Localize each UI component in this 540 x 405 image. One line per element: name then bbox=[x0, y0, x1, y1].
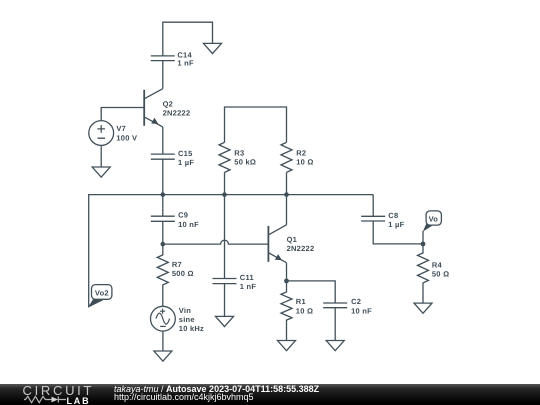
capacitor C2 bbox=[323, 303, 347, 308]
ground top-right bbox=[204, 43, 222, 53]
svg-text:R1: R1 bbox=[296, 297, 306, 306]
wire Q1 collector to bus bbox=[286, 195, 288, 225]
svg-text:10 nF: 10 nF bbox=[351, 306, 372, 315]
svg-text:10 Ω: 10 Ω bbox=[296, 158, 313, 167]
capacitor C11 bbox=[213, 279, 237, 284]
wire R3 to bus bbox=[224, 172, 226, 194]
logo CIRCUIT bbox=[23, 386, 95, 396]
ground below R1 bbox=[278, 341, 296, 351]
svg-text:Q1: Q1 bbox=[287, 235, 298, 244]
svg-text:2N2222: 2N2222 bbox=[163, 109, 191, 118]
node dot emitter bbox=[284, 279, 289, 284]
flag Vo bbox=[423, 211, 442, 232]
resistor R4 bbox=[418, 244, 429, 303]
svg-text:500 Ω: 500 Ω bbox=[172, 269, 194, 278]
resistor R1 bbox=[281, 281, 292, 341]
svg-text:R7: R7 bbox=[172, 260, 182, 269]
node dot C9-R7 bbox=[161, 242, 166, 247]
svg-text:Vin: Vin bbox=[179, 306, 191, 315]
node dot bus-R3 bbox=[222, 192, 227, 197]
wire node to Q1 base with hop bbox=[163, 240, 269, 244]
wire top from C14 to ground bbox=[163, 22, 213, 56]
wire C11 to ground bbox=[224, 284, 226, 317]
ground below R4 bbox=[414, 303, 432, 313]
logo LAB bbox=[67, 397, 91, 405]
wire C15 to bus bbox=[162, 159, 164, 194]
wire C8 to R4 node bbox=[373, 221, 423, 244]
wire C2 to ground bbox=[334, 308, 336, 341]
wire Q2 emitter to C15 bbox=[162, 127, 164, 154]
wire bus to C9 bbox=[162, 195, 164, 217]
wire main bus bbox=[89, 195, 374, 308]
svg-text:1 µF: 1 µF bbox=[178, 158, 194, 167]
capacitor C9 bbox=[151, 216, 175, 221]
svg-text:C15: C15 bbox=[178, 149, 193, 158]
ground below C11 bbox=[216, 316, 234, 326]
svg-text:1 nF: 1 nF bbox=[177, 59, 194, 68]
transistor Q2 bbox=[144, 89, 163, 127]
capacitor C15 bbox=[151, 154, 175, 159]
node dot bus-R2 bbox=[284, 192, 289, 197]
node dot bus-C15 bbox=[161, 192, 166, 197]
resistor R3 bbox=[219, 142, 230, 172]
node dot R4 bbox=[421, 242, 426, 247]
svg-text:R4: R4 bbox=[432, 260, 443, 269]
svg-text:R2: R2 bbox=[296, 149, 306, 158]
bottom black bar bbox=[0, 384, 540, 405]
logo squiggle bbox=[23, 395, 73, 405]
ground below V7 bbox=[92, 167, 110, 177]
svg-text:Vo: Vo bbox=[429, 215, 439, 224]
wire Vin to ground bbox=[162, 331, 164, 351]
ground below C2 bbox=[326, 341, 344, 351]
wire node to Vo flag bbox=[422, 231, 424, 244]
transistor Q1 bbox=[268, 225, 286, 263]
svg-text:1 nF: 1 nF bbox=[240, 282, 257, 291]
svg-text:C9: C9 bbox=[178, 211, 188, 220]
svg-text:Vo2: Vo2 bbox=[95, 288, 109, 297]
svg-text:10 Ω: 10 Ω bbox=[296, 307, 313, 316]
svg-text:1 µF: 1 µF bbox=[388, 220, 404, 229]
wire Q1 emitter to node bbox=[286, 263, 288, 281]
svg-text:10 kHz: 10 kHz bbox=[179, 324, 204, 333]
ground below Vin bbox=[154, 351, 172, 361]
svg-text:Q2: Q2 bbox=[163, 99, 174, 108]
svg-text:sine: sine bbox=[179, 315, 195, 324]
svg-text:50 Ω: 50 Ω bbox=[432, 270, 449, 279]
svg-text:2N2222: 2N2222 bbox=[287, 244, 315, 253]
svg-text:C2: C2 bbox=[351, 297, 361, 306]
svg-text:C11: C11 bbox=[240, 273, 254, 282]
wire R2 to bus bbox=[286, 172, 288, 194]
svg-text:R3: R3 bbox=[234, 148, 244, 157]
wire node to C2 bbox=[287, 281, 336, 303]
capacitor C14 bbox=[151, 56, 175, 61]
wire V7 to Q2 base bbox=[101, 108, 144, 121]
flag Vo2 bbox=[88, 285, 112, 308]
voltage source V7 bbox=[89, 121, 114, 146]
svg-text:V7: V7 bbox=[116, 124, 126, 133]
wire V7 to ground bbox=[100, 145, 102, 167]
svg-text:100 V: 100 V bbox=[116, 134, 137, 143]
wire C9 to node bbox=[162, 221, 164, 244]
wire C14 to Q2 collector bbox=[162, 61, 164, 89]
wire top rail R3 R2 bbox=[225, 107, 287, 142]
bar text line 2 bbox=[114, 393, 254, 403]
voltage source Vin bbox=[151, 306, 176, 331]
svg-text:C8: C8 bbox=[388, 211, 398, 220]
capacitor C8 bbox=[361, 216, 385, 221]
wire R3 column down to C11 bbox=[224, 195, 226, 279]
resistor R7 bbox=[157, 244, 168, 306]
svg-text:10 nF: 10 nF bbox=[178, 220, 199, 229]
resistor R2 bbox=[281, 142, 292, 172]
svg-text:50 kΩ: 50 kΩ bbox=[234, 158, 256, 167]
bar text line 1 bbox=[114, 385, 319, 395]
wire bus to C8 bbox=[372, 195, 374, 217]
